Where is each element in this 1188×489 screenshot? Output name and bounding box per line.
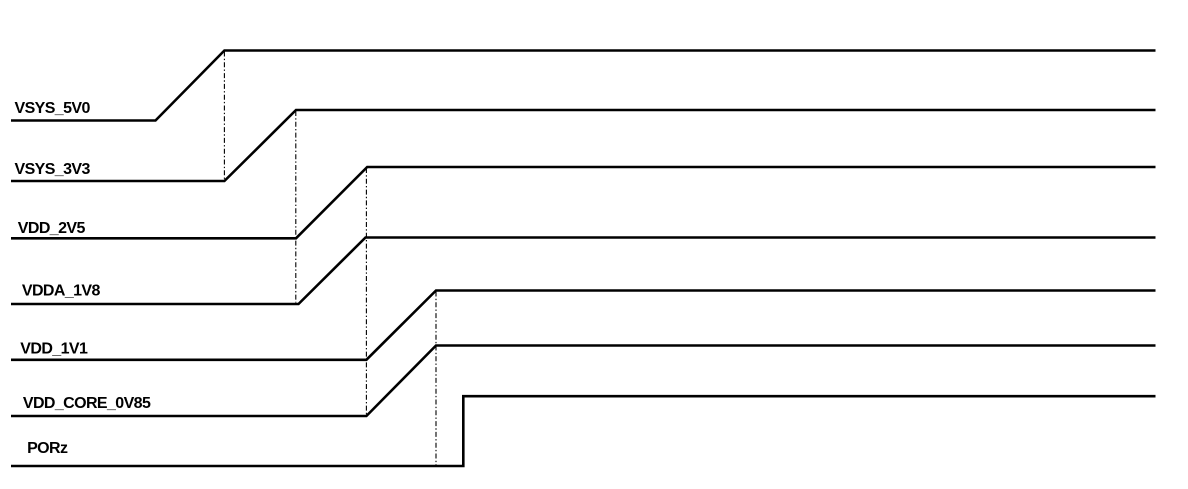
waveform VDD_CORE_0V85 xyxy=(11,346,1156,417)
svg-text:VDD_CORE_0V85: VDD_CORE_0V85 xyxy=(23,395,151,412)
svg-text:VDD_1V1: VDD_1V1 xyxy=(20,341,88,358)
waveform VDD_1V1 xyxy=(11,291,1156,360)
waveform PORz xyxy=(11,396,1156,466)
timing marker line t4 (VDD_1V1 high / PORz release) xyxy=(435,292,437,466)
svg-text:VDD_2V5: VDD_2V5 xyxy=(18,220,86,237)
timing marker line t2 (VSYS_3V3 high / VDD_2V5,VDDA_1V8 ramp start) xyxy=(295,111,297,303)
svg-text:VDDA_1V8: VDDA_1V8 xyxy=(22,282,101,299)
timing marker line t1 (VSYS_5V0 high / VSYS_3V3 ramp start) xyxy=(223,52,225,181)
waveform VSYS_5V0 xyxy=(11,51,1156,121)
waveform VDDA_1V8 xyxy=(11,238,1156,305)
waveform VDD_2V5 xyxy=(11,167,1156,238)
timing marker line t3 (VDD_2V5 high / VDD_1V1,VDD_CORE ramp start) xyxy=(365,168,367,415)
waveform VSYS_3V3 xyxy=(11,110,1156,181)
svg-text:PORz: PORz xyxy=(27,440,68,457)
svg-text:VSYS_3V3: VSYS_3V3 xyxy=(15,161,91,178)
svg-text:VSYS_5V0: VSYS_5V0 xyxy=(15,100,91,117)
